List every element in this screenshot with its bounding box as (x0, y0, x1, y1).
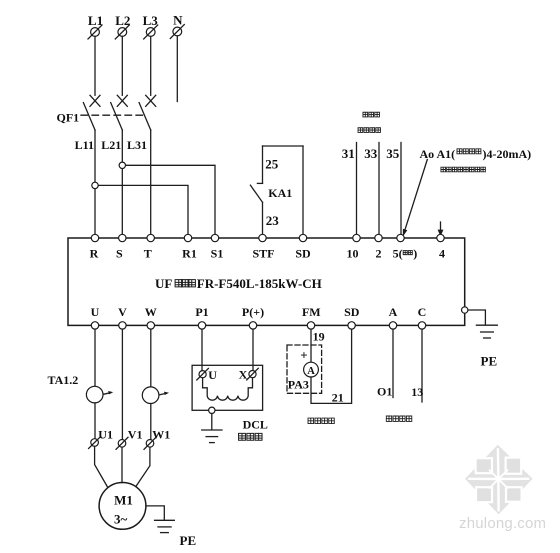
terminal STF (252, 234, 274, 260)
wire N drop (176, 36, 178, 102)
wire output C (421, 329, 423, 402)
svg-text:U1: U1 (98, 427, 113, 441)
wire L1 drop (94, 36, 96, 95)
svg-text:19: 19 (313, 330, 325, 344)
svg-text:L11: L11 (75, 138, 94, 152)
svg-text:QF1: QF1 (57, 110, 80, 124)
breaker QF1 pole 3 (139, 95, 156, 130)
svg-text:+: + (300, 348, 307, 363)
svg-text:S1: S1 (211, 247, 224, 261)
svg-text:L3: L3 (143, 13, 159, 28)
arrow to terminal 5 (403, 160, 428, 237)
svg-text:UF: UF (155, 276, 172, 291)
inverter UF box (68, 238, 465, 325)
terminal V (118, 305, 127, 329)
breaker QF1 pole 1 (83, 95, 100, 130)
svg-text:V1: V1 (128, 428, 143, 442)
terminal C (418, 305, 427, 329)
wire earth tap on right edge (465, 310, 486, 325)
svg-text:U: U (91, 305, 100, 319)
label inverter UF FR-F540L-185kW-CH (155, 276, 322, 291)
terminal S (116, 234, 126, 260)
wire node B to S1 (122, 165, 215, 238)
wire U phase (94, 329, 96, 386)
svg-text:PE: PE (180, 533, 197, 548)
terminal A (389, 305, 398, 329)
wire phase T down to terminal T (150, 130, 152, 238)
ground (DCL) (202, 430, 222, 443)
wire W to W1 (150, 404, 152, 440)
svg-text:zhulong.com: zhulong.com (459, 515, 546, 532)
svg-text:L21: L21 (101, 138, 121, 152)
terminal P1 (195, 305, 208, 329)
winding DCL (203, 378, 253, 400)
reactor DCL box (192, 365, 263, 410)
terminal FM (302, 305, 321, 329)
svg-text:C: C (418, 305, 427, 319)
svg-text:M1: M1 (114, 492, 133, 507)
CT TA1.2 on U phase (86, 386, 113, 403)
svg-text:SD: SD (295, 247, 311, 261)
dashed box PA3 (287, 345, 322, 393)
node B junction (119, 162, 125, 168)
svg-text:21: 21 (332, 391, 344, 405)
wire node A to R1 (95, 185, 188, 238)
svg-text:4: 4 (439, 247, 445, 261)
label 电位器 (363, 112, 380, 117)
ground PE (motor) (155, 520, 175, 532)
svg-text:P(+): P(+) (242, 305, 264, 319)
svg-text:O1: O1 (377, 385, 392, 399)
terminal U1 (89, 427, 113, 448)
terminal 10 (347, 234, 361, 260)
terminal U (91, 305, 100, 329)
label 电抗器 (239, 433, 262, 440)
label 频率指示 (308, 418, 334, 424)
wire U to U1 (94, 403, 96, 439)
terminal 4 (437, 234, 445, 260)
svg-text:31: 31 (342, 146, 355, 161)
label Ao A1 (current input) 4-20mA (420, 147, 532, 161)
wire lead 33 (378, 143, 380, 239)
svg-text:V: V (118, 305, 127, 319)
watermark logo (465, 445, 533, 515)
breaker QF1 pole 2 (111, 95, 128, 130)
wire V phase (121, 329, 123, 439)
svg-text:DCL: DCL (243, 418, 268, 432)
svg-text:35: 35 (386, 146, 400, 161)
label 故障输出 (386, 416, 411, 421)
terminal X (DCL) (239, 368, 259, 382)
wire DCL earth (211, 414, 213, 430)
wire SD riser (302, 146, 304, 238)
wire U1 to motor (95, 446, 108, 486)
terminal T (144, 234, 155, 260)
wire W1 to motor (136, 447, 150, 486)
svg-text:3~: 3~ (114, 512, 128, 527)
terminal L1 (88, 13, 103, 39)
svg-text:): ) (413, 247, 417, 261)
svg-text:PE: PE (481, 353, 498, 368)
svg-text:U: U (208, 368, 217, 382)
svg-text:STF: STF (252, 247, 274, 261)
svg-text:)4-20mA): )4-20mA) (483, 147, 532, 161)
svg-text:A: A (307, 366, 315, 377)
terminal V1 (116, 428, 142, 450)
wire output A (392, 329, 394, 397)
wire motor earth (146, 506, 164, 520)
terminal 5 (common) (393, 234, 418, 260)
wire KA1 top bar (263, 145, 304, 147)
terminal W1 (144, 428, 170, 450)
wire FM to SD loop (311, 329, 352, 403)
wire lead 35 (400, 143, 402, 239)
wire V1 to motor (121, 447, 123, 482)
svg-text:P1: P1 (195, 305, 208, 319)
wire phase R down to terminal R (94, 130, 96, 238)
ammeter PA3 (304, 362, 319, 377)
wire P1 drop (201, 329, 203, 370)
wire W phase (150, 329, 152, 387)
wire L3 drop (150, 36, 152, 95)
svg-text:5(: 5( (393, 247, 403, 261)
terminal W (145, 305, 157, 329)
terminal 2 (375, 234, 382, 260)
svg-text:L31: L31 (127, 138, 147, 152)
node DCL bottom (209, 407, 215, 413)
label 变频器速度设定口 (441, 167, 485, 172)
svg-text:R: R (90, 247, 99, 261)
svg-text:23: 23 (266, 213, 280, 228)
svg-text:TA1.2: TA1.2 (48, 373, 79, 387)
svg-text:X: X (239, 368, 248, 382)
svg-text:T: T (144, 247, 152, 261)
node A junction (92, 182, 98, 188)
terminal U (DCL) (197, 368, 218, 382)
CT TA1.2 on W phase (142, 387, 169, 404)
svg-text:33: 33 (364, 146, 378, 161)
terminal N (170, 13, 184, 39)
svg-text:N: N (173, 13, 183, 28)
svg-text:KA1: KA1 (268, 186, 292, 200)
label 频率设定 (358, 128, 380, 133)
terminal R1 (182, 234, 197, 260)
svg-text:FM: FM (302, 305, 321, 319)
wire L2 drop (121, 36, 123, 95)
wire phase S down to terminal S (121, 130, 123, 238)
wire lead 31 (356, 143, 358, 239)
svg-text:Ao A1(: Ao A1( (420, 147, 456, 161)
node on right edge (462, 307, 468, 313)
wire P(+) drop (252, 329, 254, 370)
svg-text:SD: SD (344, 305, 360, 319)
terminal P(+) (242, 305, 264, 329)
terminal R (90, 234, 99, 260)
svg-text:25: 25 (265, 157, 279, 172)
QF1 linkage dashed (81, 114, 145, 116)
svg-text:FR-F540L-185kW-CH: FR-F540L-185kW-CH (197, 276, 322, 291)
wire FM drop (310, 329, 312, 362)
svg-text:PA3: PA3 (288, 377, 309, 391)
svg-text:R1: R1 (182, 247, 197, 261)
svg-text:A: A (389, 305, 398, 319)
terminal L3 (143, 13, 159, 39)
terminal L2 (115, 13, 130, 39)
relay contact KA1 (250, 183, 262, 202)
svg-text:W: W (145, 305, 157, 319)
ground PE (inverter) (476, 325, 497, 338)
wire STF riser (262, 146, 264, 238)
svg-text:W1: W1 (152, 428, 170, 442)
svg-text:13: 13 (411, 385, 423, 399)
arrow to terminal 4 (438, 222, 444, 237)
svg-text:10: 10 (347, 247, 359, 261)
terminal S1 (211, 234, 224, 260)
svg-text:S: S (116, 247, 123, 261)
terminal SD bottom (344, 305, 360, 329)
terminal SD top (295, 234, 311, 260)
svg-text:2: 2 (376, 247, 382, 261)
motor M1 (99, 483, 146, 530)
